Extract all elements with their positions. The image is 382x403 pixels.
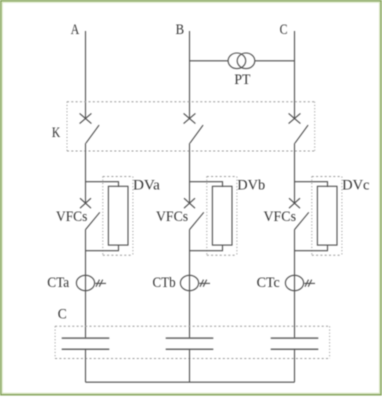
- svg-text:DVc: DVc: [342, 177, 370, 193]
- wire phase C bottom: [294, 349, 296, 382]
- arrester DVc dashed box: [312, 177, 342, 256]
- CT phase B: [180, 275, 210, 290]
- wire DVc top branch: [295, 182, 328, 187]
- wire DVb bottom branch: [190, 245, 223, 251]
- svg-text:CTa: CTa: [47, 275, 69, 291]
- capacitor bank C dashed box: [55, 326, 330, 358]
- breaker group K dashed box: [67, 102, 315, 151]
- wire phase B top: [189, 31, 191, 119]
- wire DVa bottom branch: [86, 245, 119, 251]
- svg-text:A: A: [71, 22, 80, 38]
- wire phase C mid2: [294, 230, 296, 339]
- wire phase C mid1: [294, 143, 296, 203]
- CT phase A: [76, 275, 106, 290]
- wire DVb top branch: [190, 182, 223, 187]
- resistor DVa: [108, 186, 128, 245]
- switch VFCs phase C: [289, 198, 309, 229]
- capacitor phase B: [166, 338, 214, 349]
- switch VFCs phase B: [184, 198, 204, 229]
- wire PT right: [255, 60, 295, 62]
- switch VFCs phase A: [80, 198, 100, 229]
- svg-text:VFCs: VFCs: [264, 209, 297, 225]
- wire phase A bottom: [85, 349, 87, 382]
- svg-text:CTb: CTb: [153, 275, 176, 291]
- wire bottom bus: [86, 381, 295, 383]
- svg-text:K: K: [52, 125, 61, 141]
- wire phase B mid2: [189, 230, 191, 339]
- capacitor phase C: [271, 338, 319, 349]
- svg-text:DVb: DVb: [237, 177, 265, 193]
- transformer PT: [228, 53, 255, 69]
- resistor DVb: [212, 186, 232, 245]
- wire phase A mid1: [85, 143, 87, 203]
- arrester DVa dashed box: [103, 177, 133, 256]
- wire phase A mid2: [85, 230, 87, 339]
- breaker K phase A: [80, 113, 100, 143]
- svg-text:CTc: CTc: [257, 275, 280, 291]
- wire phase B bottom: [189, 349, 191, 382]
- svg-text:VFCs: VFCs: [156, 209, 188, 225]
- breaker K phase B: [184, 113, 204, 143]
- wire PT left: [190, 60, 229, 62]
- breaker K phase C: [289, 113, 309, 143]
- wire phase C top: [294, 31, 296, 119]
- wire phase B mid1: [189, 143, 191, 203]
- svg-text:VFCs: VFCs: [56, 209, 88, 225]
- svg-text:C: C: [58, 307, 67, 323]
- wire phase A top: [85, 31, 87, 119]
- svg-text:PT: PT: [234, 72, 250, 88]
- wire DVa top branch: [86, 182, 119, 187]
- svg-text:B: B: [176, 22, 185, 38]
- resistor DVc: [317, 186, 337, 245]
- arrester DVb dashed box: [207, 177, 237, 256]
- capacitor phase A: [62, 338, 110, 349]
- svg-text:C: C: [280, 22, 288, 38]
- wire DVc bottom branch: [295, 245, 328, 251]
- svg-text:DVa: DVa: [133, 177, 160, 193]
- CT phase C: [285, 275, 315, 290]
